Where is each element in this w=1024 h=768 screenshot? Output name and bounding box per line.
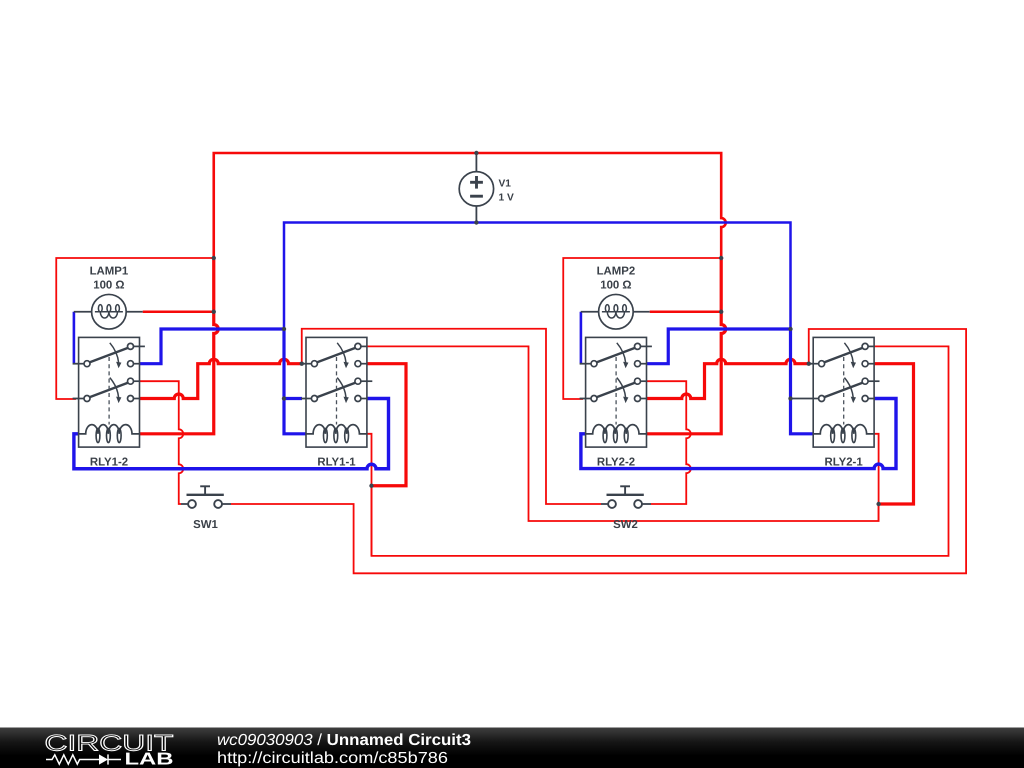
svg-text:LAB: LAB [125,749,174,768]
svg-text:1 V: 1 V [499,192,514,203]
svg-text:SW2: SW2 [613,519,638,531]
svg-text:SW1: SW1 [193,519,218,531]
svg-text:RLY1-2: RLY1-2 [90,457,128,469]
svg-text:wc09030903 / Unnamed Circuit3: wc09030903 / Unnamed Circuit3 [217,732,471,749]
svg-text:V1: V1 [499,178,512,189]
svg-text:RLY1-1: RLY1-1 [317,457,356,469]
svg-text:http://circuitlab.com/c85b786: http://circuitlab.com/c85b786 [217,750,448,767]
svg-text:LAMP2: LAMP2 [597,266,636,278]
svg-text:RLY2-1: RLY2-1 [824,457,863,469]
svg-text:RLY2-2: RLY2-2 [597,457,635,469]
svg-text:100 Ω: 100 Ω [600,280,631,292]
svg-text:100 Ω: 100 Ω [93,280,124,292]
svg-text:LAMP1: LAMP1 [90,266,129,278]
